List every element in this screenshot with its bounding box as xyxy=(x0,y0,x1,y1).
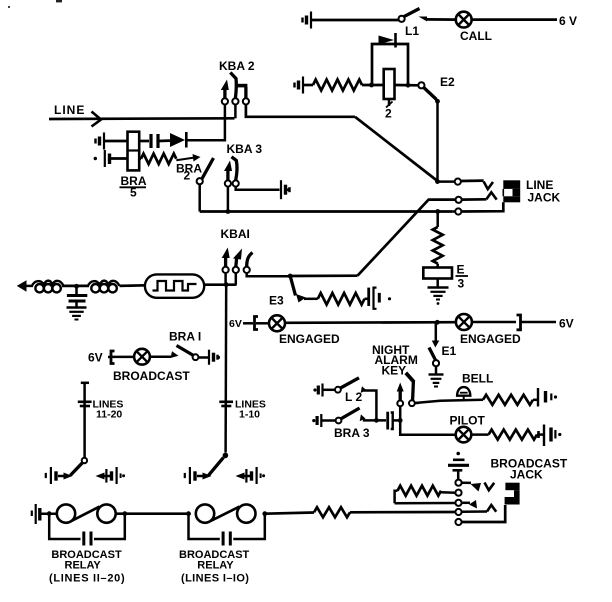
label 6V (broadcast) xyxy=(88,351,103,365)
svg-text:6V: 6V xyxy=(559,317,574,331)
svg-text:JACK: JACK xyxy=(510,468,543,482)
svg-text:KBA 2: KBA 2 xyxy=(219,59,255,73)
inductor (line coil A) xyxy=(32,281,64,293)
capacitor + battery BT6 xyxy=(365,288,392,309)
wire xyxy=(40,512,57,515)
wire (diagonal to jack ring 2) xyxy=(358,200,456,276)
wire xyxy=(105,140,128,143)
node xyxy=(74,284,79,289)
svg-text:CALL: CALL xyxy=(460,29,492,43)
contact KBA3-a xyxy=(224,161,232,187)
node xyxy=(224,282,229,287)
bell xyxy=(457,387,470,400)
node xyxy=(435,99,440,104)
label LINES 11-20 xyxy=(93,399,124,421)
label KBA I xyxy=(221,227,250,241)
node xyxy=(122,511,127,516)
lamp ENGAGED (left) xyxy=(269,315,285,331)
wire xyxy=(363,419,386,422)
resistor element E/3 xyxy=(423,268,452,279)
wire xyxy=(112,356,134,359)
svg-text:LINE: LINE xyxy=(54,103,85,117)
wire xyxy=(312,19,399,22)
arrow contact xyxy=(197,473,212,480)
arrow (line direction) xyxy=(92,112,102,127)
battery BT8 xyxy=(46,467,56,484)
ground (below E/3) xyxy=(428,288,449,305)
node (L1 coil left) xyxy=(369,83,374,88)
broadcast relay (lines 11-20) xyxy=(57,504,116,522)
jack spring 3 (sleeve) xyxy=(453,202,504,214)
wire (to pilot) xyxy=(400,420,456,434)
resistor (broadcast line) xyxy=(314,507,350,517)
label BROADCAST JACK xyxy=(491,457,568,482)
resistor (broadcast jack) xyxy=(395,486,441,504)
contact KBA3-b xyxy=(232,157,239,187)
wire (KBA1-b stem) xyxy=(235,273,238,285)
wire xyxy=(116,512,189,515)
wire xyxy=(415,400,483,403)
contact KBA1-b xyxy=(233,249,242,274)
wire xyxy=(350,511,455,514)
svg-text:2: 2 xyxy=(184,169,191,183)
resistor (E3 branch) xyxy=(318,293,365,305)
label CALL xyxy=(460,29,492,43)
svg-text:6 V: 6 V xyxy=(559,14,577,28)
capacitor C1 xyxy=(151,134,158,148)
label L 2 xyxy=(345,390,362,404)
broadcast relay (lines 1-10) xyxy=(196,504,256,522)
label 6V (call) xyxy=(559,14,577,28)
label KBA 3 xyxy=(227,142,263,156)
label E2 xyxy=(440,75,455,89)
jack spring A xyxy=(455,480,494,492)
wire xyxy=(362,84,384,87)
node xyxy=(226,209,231,214)
switch contact L2 xyxy=(335,378,359,393)
wire xyxy=(186,118,225,140)
capacitor C2 (to ground) xyxy=(67,286,87,307)
resistor E 3 (vertical) xyxy=(433,227,443,264)
battery BT2 (L1 relay) xyxy=(295,77,304,94)
wire (KBA2-b stem) xyxy=(234,105,237,119)
svg-text:3: 3 xyxy=(458,277,465,291)
label LINE xyxy=(54,103,85,117)
svg-text:BRA I: BRA I xyxy=(169,330,201,344)
speck xyxy=(8,0,62,8)
ground (line filter) xyxy=(67,308,87,320)
wire xyxy=(265,513,314,514)
cable mark (lines 11-20) xyxy=(78,402,92,406)
battery BT12 (L2) xyxy=(313,384,322,397)
svg-text:BELL: BELL xyxy=(462,372,493,386)
jack spring D xyxy=(455,505,497,515)
wire (KBA1-a stem) xyxy=(224,273,227,285)
wire xyxy=(256,322,269,325)
label 6V (engaged left) xyxy=(229,318,242,330)
battery BT10 xyxy=(185,467,195,484)
wire (lines 11-20 column) xyxy=(81,383,89,458)
label BELL xyxy=(462,372,493,386)
transfer contact (lines 11-20) xyxy=(70,458,87,476)
jack spring B xyxy=(441,490,462,496)
svg-text:KBAI: KBAI xyxy=(221,227,250,241)
label E 3 xyxy=(456,263,469,291)
node xyxy=(398,418,403,423)
svg-text:11-20: 11-20 xyxy=(96,409,122,421)
contact NAK-a xyxy=(397,383,404,407)
contact KBA2-c xyxy=(237,86,249,105)
wire xyxy=(472,18,557,21)
ground (E1) xyxy=(429,375,444,387)
wire xyxy=(426,18,456,21)
wire xyxy=(323,389,336,392)
capacitor C3 xyxy=(388,412,393,430)
wire xyxy=(285,321,456,324)
svg-text:KBA 3: KBA 3 xyxy=(227,142,263,156)
svg-text:RELAY: RELAY xyxy=(65,560,102,572)
wire xyxy=(436,212,439,228)
svg-text:5: 5 xyxy=(130,186,137,200)
svg-text:(LINES I–IO): (LINES I–IO) xyxy=(181,573,249,585)
label L1 xyxy=(405,24,419,38)
label E3 xyxy=(269,294,284,308)
label BRA I xyxy=(169,330,201,344)
label KBA 2 xyxy=(219,59,255,73)
wire xyxy=(158,139,170,142)
node xyxy=(186,511,191,516)
resistor (pilot) xyxy=(489,430,537,440)
svg-text:RELAY: RELAY xyxy=(197,560,234,572)
resistor (BRA branch) xyxy=(139,154,176,164)
line jack body xyxy=(503,180,520,202)
inductor (line coil B) xyxy=(88,281,119,293)
wire xyxy=(290,274,357,277)
label BRA 2 xyxy=(176,162,202,183)
label LINE JACK xyxy=(526,178,561,205)
node xyxy=(435,320,440,325)
battery BT11 xyxy=(246,467,265,484)
label 6V (engaged right) xyxy=(559,317,574,331)
svg-text:6V: 6V xyxy=(88,351,103,365)
jack spring E xyxy=(455,505,505,525)
wire (NAK-a stem) xyxy=(399,406,402,420)
cable mark (lines 1-10) xyxy=(219,402,233,406)
wire (line to jack diagonal) xyxy=(355,117,438,181)
wire xyxy=(436,279,439,288)
wire (long net to jack ring) xyxy=(200,210,453,213)
wire LINE xyxy=(49,117,235,120)
contact KBA1-c xyxy=(244,253,253,274)
broadcast jack body xyxy=(505,483,520,505)
jack spring C xyxy=(395,500,477,509)
svg-text:(LINES II–20): (LINES II–20) xyxy=(49,573,125,585)
lamp CALL xyxy=(456,12,472,28)
retardation coil (oval) xyxy=(145,274,204,297)
label BROADCAST RELAY (LINES 11-20) xyxy=(49,549,125,585)
rectifier D2 xyxy=(170,132,186,148)
label E1 xyxy=(442,344,457,358)
lamp BROADCAST xyxy=(134,349,150,365)
wire xyxy=(471,433,488,436)
arrow contact (BRA3) xyxy=(360,414,366,421)
svg-text:ENGAGED: ENGAGED xyxy=(279,332,340,346)
wire xyxy=(110,157,128,160)
svg-text:L 2: L 2 xyxy=(345,390,362,404)
switch contact BRA1 xyxy=(171,346,199,361)
wire (KBA2-a stem) xyxy=(224,105,227,119)
switch contact E2 xyxy=(418,82,436,99)
battery BT16 xyxy=(32,504,40,524)
night alarm key lever xyxy=(406,373,414,400)
battery BT9 xyxy=(106,467,125,484)
transfer contact (lines 1-10) xyxy=(208,453,228,476)
contact KBA2-a xyxy=(221,80,229,105)
label PILOT xyxy=(450,414,486,428)
arrow to BRA 2 xyxy=(176,154,200,162)
node xyxy=(47,511,52,516)
label BRA 3 xyxy=(334,426,370,440)
svg-text:ENGAGED: ENGAGED xyxy=(460,332,521,346)
arrow (to line, left) xyxy=(17,280,33,291)
switch contact BRA2 xyxy=(197,158,214,184)
svg-text:L1: L1 xyxy=(405,24,419,38)
wire xyxy=(139,140,149,143)
lamp PILOT xyxy=(456,427,472,443)
jack spring 2 (ring) xyxy=(456,192,497,203)
switch contact L1 (key) xyxy=(399,9,428,22)
wire xyxy=(521,321,557,324)
wire (shunt loop) xyxy=(372,44,408,85)
svg-text:1-10: 1-10 xyxy=(239,409,260,421)
wire (column lines 1-10) xyxy=(224,285,227,453)
battery (broadcast jack ground) xyxy=(448,452,469,480)
jack spring 1 (tip) xyxy=(438,179,494,190)
wire xyxy=(304,84,313,87)
battery BT15 xyxy=(537,425,561,447)
wire (E2 to line jack tip) xyxy=(436,101,439,181)
wire xyxy=(62,285,89,288)
wire (BRA2 stem) xyxy=(198,184,201,211)
wire xyxy=(150,355,171,358)
wire xyxy=(243,322,253,325)
node (jack tip net) xyxy=(435,179,440,184)
resistor (L1 relay series) xyxy=(313,80,362,91)
contact KBA1-a xyxy=(222,248,230,274)
svg-text:BROADCAST: BROADCAST xyxy=(113,369,190,383)
rectifier D1 (across L1 coil) xyxy=(379,33,396,48)
terminal bracket xyxy=(255,317,259,330)
battery BT13 (BRA3) xyxy=(312,414,321,427)
label BROADCAST (lamp) xyxy=(113,369,190,383)
svg-text:KEY: KEY xyxy=(382,364,407,378)
wire xyxy=(364,391,377,421)
wire (oval to KBA1) xyxy=(204,283,236,286)
svg-text:E2: E2 xyxy=(440,75,455,89)
svg-text:6V: 6V xyxy=(229,318,242,330)
wire xyxy=(393,419,401,422)
arrow contact xyxy=(96,473,111,480)
battery BT7 xyxy=(209,350,220,365)
switch contact BRA3 xyxy=(336,408,360,423)
label LINES 1-10 xyxy=(235,399,266,421)
arrow contact xyxy=(236,473,251,480)
relay coil L1 winding 2 xyxy=(384,69,395,99)
battery BT1 (call circuit) xyxy=(303,12,312,29)
switch contact E3 xyxy=(290,276,306,303)
battery BT14 xyxy=(533,388,557,407)
svg-text:JACK: JACK xyxy=(528,191,561,205)
battery BT5 xyxy=(281,180,290,199)
wire (KBA2-c stem) xyxy=(246,105,355,117)
resistor (bell) xyxy=(483,395,533,405)
wire xyxy=(472,321,516,324)
capacitor (relay 11-20 loop) xyxy=(49,514,125,546)
lamp ENGAGED (right) xyxy=(456,314,472,330)
arrow contact (L2) xyxy=(361,386,367,393)
svg-text:E1: E1 xyxy=(442,344,457,358)
wire xyxy=(321,419,335,422)
wire (KBA1-c stem) xyxy=(247,273,291,276)
node xyxy=(374,418,379,423)
node xyxy=(406,83,411,88)
arrow contact xyxy=(58,473,73,480)
node xyxy=(262,511,267,516)
capacitor (relay 1-10 loop) xyxy=(189,514,265,546)
winding tag 2 xyxy=(385,99,393,121)
switch contact E1 xyxy=(429,341,439,367)
svg-text:PILOT: PILOT xyxy=(450,414,486,428)
battery BT3 xyxy=(96,133,105,150)
contact NAK-b xyxy=(409,400,419,406)
svg-text:2: 2 xyxy=(385,107,392,121)
battery BT4 xyxy=(94,150,110,167)
svg-text:E: E xyxy=(457,263,465,277)
label BROADCAST RELAY (LINES 1-10) xyxy=(179,549,250,585)
wire (E1 stem) xyxy=(435,322,438,341)
node xyxy=(288,274,293,279)
label BRA 5 xyxy=(120,174,147,200)
relay coil BRA windings xyxy=(128,132,140,171)
label ENGAGED (right) xyxy=(460,332,521,346)
wire (KBA3-a stem) xyxy=(227,187,230,212)
wire (KBA3-b to battery) xyxy=(236,187,280,190)
wire xyxy=(436,264,439,268)
svg-text:E3: E3 xyxy=(269,294,284,308)
wire xyxy=(198,356,208,359)
wire xyxy=(304,298,318,301)
node xyxy=(435,209,440,214)
label ENGAGED (left) xyxy=(279,332,340,346)
contact KBA2-b xyxy=(230,73,238,105)
svg-text:BRA 3: BRA 3 xyxy=(334,426,370,440)
wire xyxy=(120,284,145,287)
wire xyxy=(435,366,438,374)
wire xyxy=(395,84,419,87)
label NIGHT ALARM KEY xyxy=(372,343,418,378)
terminal bracket xyxy=(517,315,521,330)
terminal bracket xyxy=(108,351,115,364)
